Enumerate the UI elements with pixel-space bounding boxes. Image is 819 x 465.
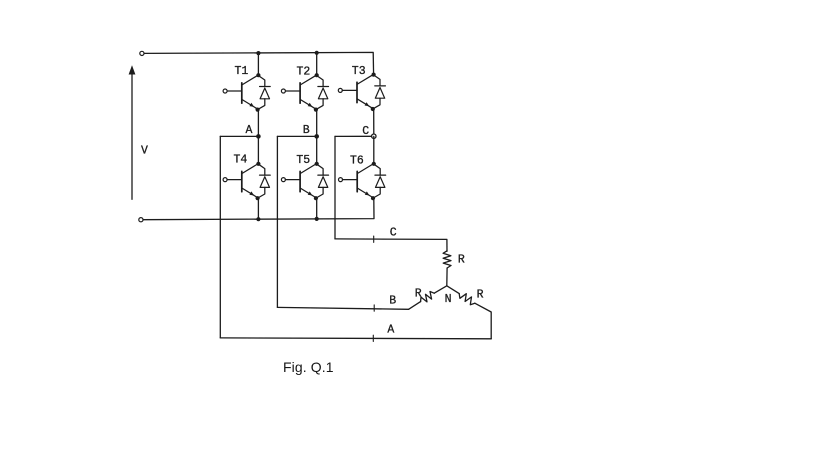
tick mark on phase B line [373,305,375,311]
wire: N to left resistor lead [434,286,447,293]
wire: phase C vertical drop [334,136,336,239]
wire: left resistor to phase B line [409,302,421,310]
wire: rail to T1 collector [257,53,259,75]
wire: phase A horizontal run [220,337,491,340]
svg-text:A: A [387,323,394,336]
svg-text:R: R [477,288,484,301]
junction dot: T5 bottom rail [315,217,319,221]
wire: node B to T5 collector [316,136,318,163]
svg-text:C: C [390,227,397,240]
wire: phase B vertical drop [276,136,278,307]
wire: right resistor down to phase A line [475,303,491,339]
wire: T5 emitter to bottom rail [316,198,318,219]
transistor T4 with diode [223,162,270,201]
node A dot [256,134,261,139]
svg-text:A: A [246,124,253,137]
junction dot: T1 top rail [256,51,260,55]
svg-text:T4: T4 [234,154,248,167]
svg-text:B: B [303,124,310,137]
transistor T5 with diode [281,162,328,201]
wire: T2 emitter to node B [316,110,318,137]
wire: T4 emitter to bottom rail [257,198,259,219]
terminal + (top left open circle) [140,51,144,55]
node C dot [372,134,376,138]
node B dot [314,134,319,139]
wire: node A stub [220,135,258,137]
wire: node C stub [335,135,372,137]
svg-text:T6: T6 [350,154,364,167]
resistor R (phase A, diagonal zigzag) [459,294,475,305]
resistor R (phase C, vertical zigzag) [443,251,451,268]
wire: T3 emitter to node C [373,109,375,136]
svg-text:T2: T2 [297,65,311,78]
wire: node C to T6 collector [373,136,375,163]
junction dot: T4 bottom rail [256,217,260,221]
transistor T1 with diode [223,73,270,112]
wire: phase A vertical drop [219,136,221,338]
svg-text:B: B [389,295,396,308]
wire: phase C horizontal run to load [335,239,447,251]
svg-text:T5: T5 [296,154,310,167]
wire: T1 emitter to node A [257,110,259,137]
resistor R (phase B, diagonal zigzag) [421,292,435,302]
transistor T6 with diode [339,162,386,201]
svg-text:V: V [141,145,148,158]
svg-text:R: R [458,253,465,266]
svg-text:T3: T3 [352,65,366,78]
transistor T3 with diode [338,73,385,112]
transistor T2 with diode [281,73,328,112]
terminal - (bottom left open circle) [139,218,143,222]
wire: bottom DC rail [143,198,374,220]
wire: top DC rail [144,52,374,75]
junction dot: T2 top rail [315,51,319,55]
svg-text:Fig. Q.1: Fig. Q.1 [283,359,334,375]
svg-text:N: N [445,293,452,306]
wire: rail to T2 collector [316,53,318,75]
wire: phase B horizontal run [277,307,408,309]
wire: N to right resistor lead [447,286,459,294]
tick mark on phase A line [372,335,374,341]
voltage arrow V [129,65,136,199]
svg-text:T1: T1 [235,65,249,78]
tick mark on phase C line [373,236,375,242]
wire: resistor to neutral N [446,268,448,286]
wire: node B stub [277,135,316,137]
wire: node A to T4 collector [257,136,259,163]
svg-text:R: R [415,287,422,300]
